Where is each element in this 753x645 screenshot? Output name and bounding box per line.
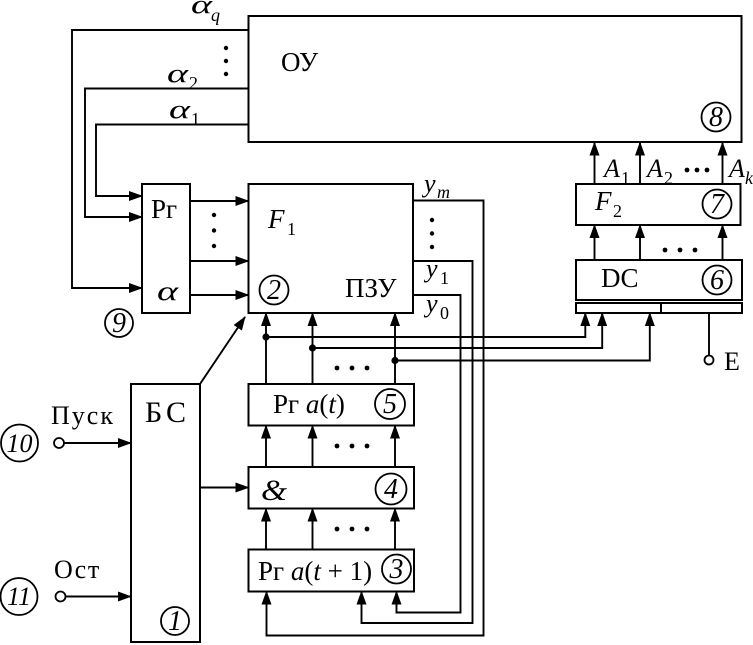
circled 3 <box>382 555 411 584</box>
wire y_m feedback <box>267 201 484 636</box>
svg-text:A: A <box>602 154 620 183</box>
wire Ost input <box>66 596 132 598</box>
wire alpha_2 from OU to Rg middle input <box>85 89 249 218</box>
svg-text:3: 3 <box>389 554 404 585</box>
circled 6 <box>703 266 732 295</box>
circled 7 <box>703 190 732 219</box>
block AND gates 4 <box>249 467 415 509</box>
svg-text:Пуск: Пуск <box>51 401 115 430</box>
wire DC to F2 right <box>722 225 724 260</box>
terminal Pusk circle <box>54 438 64 448</box>
wire AND to Rg a(t) col3 <box>394 426 396 468</box>
wire E input <box>708 313 710 356</box>
svg-text:1: 1 <box>287 219 296 239</box>
svg-text:Ост: Ост <box>54 555 101 584</box>
svg-text:10: 10 <box>7 429 33 458</box>
DC bottom strip <box>576 303 742 313</box>
hdots below F1 <box>335 366 340 371</box>
wire Rg a(t) to F1 col3 <box>394 313 396 384</box>
wire F2 to OU Ak <box>722 143 724 185</box>
wire Rg a(t) to F1 col1 <box>265 313 267 384</box>
wire alpha_1 from OU to Rg top input <box>96 125 249 197</box>
wire BS diagonal to F1 <box>200 317 245 384</box>
wire Rg to F1 bottom <box>190 294 249 296</box>
circled 4 <box>376 474 407 505</box>
svg-text:1: 1 <box>621 168 630 188</box>
block Rg a(t+1) 3 <box>249 550 415 592</box>
hdots DC to F2 <box>663 248 668 253</box>
svg-text:7: 7 <box>710 189 725 220</box>
svg-text:11: 11 <box>7 582 31 611</box>
svg-text:F: F <box>594 186 612 216</box>
svg-text:Рг: Рг <box>151 194 177 224</box>
block OU (operating unit) 8 <box>249 16 742 142</box>
svg-text:y: y <box>423 254 438 283</box>
wire branch col1 to DC strip <box>266 313 585 337</box>
circled 10 <box>1 425 38 462</box>
svg-text:ПЗУ: ПЗУ <box>345 273 397 303</box>
wire F2 to OU A2 <box>639 143 641 185</box>
wire Rg to F1 top <box>190 200 249 202</box>
svg-text:A: A <box>645 154 663 183</box>
svg-text:k: k <box>745 168 753 188</box>
svg-text:9: 9 <box>112 308 126 339</box>
svg-text:y: y <box>423 289 438 318</box>
hdots Rg a(t+1) to AND <box>335 527 340 532</box>
wire AND to Rg a(t) col2 <box>312 426 314 468</box>
svg-text:2: 2 <box>613 201 622 221</box>
hdots A labels <box>685 168 690 173</box>
wire y_1 feedback <box>362 261 473 623</box>
circled 8 <box>702 103 731 132</box>
wire branch col2 to DC strip <box>313 313 603 348</box>
svg-text:6: 6 <box>710 265 724 296</box>
svg-text:4: 4 <box>384 474 398 505</box>
svg-text:Е: Е <box>724 347 740 376</box>
wire Rg to F1 middle <box>190 260 249 262</box>
terminal Ost circle <box>56 592 66 602</box>
svg-text:БС: БС <box>145 396 190 429</box>
wire Pusk input <box>64 442 131 444</box>
circled 1 <box>161 607 189 635</box>
wire branch col3 to DC strip <box>395 313 650 361</box>
block DC decoder 6 <box>576 260 742 300</box>
wire BS to AND <box>200 487 249 489</box>
wire DC to F2 mid <box>639 225 641 260</box>
circled 5 <box>375 389 405 419</box>
svg-text:F: F <box>267 204 285 234</box>
block F2 7 <box>576 184 741 225</box>
svg-text:5: 5 <box>383 389 397 420</box>
wire AND to Rg a(t) col1 <box>265 426 267 468</box>
wire Rg a(t+1) to AND col3 <box>394 509 396 550</box>
svg-text:2: 2 <box>267 275 281 306</box>
junction dot col1 <box>262 333 269 340</box>
circled 9 <box>105 309 133 337</box>
svg-text:2: 2 <box>189 73 198 93</box>
circled 11 <box>1 578 38 615</box>
wire y_0 feedback <box>397 295 461 613</box>
vdots y outputs <box>430 218 434 222</box>
svg-text:q: q <box>211 5 220 25</box>
svg-text:Рг a(t): Рг a(t) <box>273 389 345 419</box>
svg-text:0: 0 <box>440 303 449 323</box>
svg-text:y: y <box>421 169 436 198</box>
svg-text:1: 1 <box>440 268 449 288</box>
wire Rg a(t) to F1 col2 <box>312 313 314 384</box>
wire Rg a(t+1) to AND col2 <box>312 509 314 550</box>
svg-text:Рг a(t + 1): Рг a(t + 1) <box>258 556 372 586</box>
svg-text:A: A <box>727 154 745 183</box>
vdots alpha <box>224 46 228 50</box>
vdots Rg-F1 <box>212 213 216 217</box>
junction dot col2 <box>309 344 316 351</box>
wire alpha_q from OU to Rg bottom input <box>72 30 249 288</box>
svg-text:1: 1 <box>168 606 182 637</box>
svg-text:α: α <box>157 276 179 306</box>
block Rg a(t) 5 <box>249 384 415 426</box>
block F1 / PZU (ROM) 2 <box>249 184 414 313</box>
svg-text:α: α <box>167 59 190 88</box>
terminal E circle <box>705 356 714 365</box>
wire DC to F2 left <box>594 225 596 260</box>
wire F2 to OU A1 <box>594 143 596 185</box>
svg-text:2: 2 <box>664 168 673 188</box>
svg-text:1: 1 <box>191 109 200 129</box>
block Rg / alpha register 9 <box>142 184 190 313</box>
DC strip divider <box>660 303 662 313</box>
svg-text:&: & <box>261 474 288 507</box>
svg-text:m: m <box>437 182 450 202</box>
wire Rg a(t+1) to AND col1 <box>265 509 267 550</box>
svg-text:DC: DC <box>601 263 639 293</box>
block BS (control block) 1 <box>131 384 200 642</box>
svg-text:ОУ: ОУ <box>281 47 319 77</box>
junction dot col3 <box>391 357 398 364</box>
circled 2 <box>260 276 289 305</box>
svg-text:8: 8 <box>709 102 723 133</box>
svg-text:α: α <box>169 95 192 124</box>
hdots AND to Rg a(t) <box>335 444 340 449</box>
